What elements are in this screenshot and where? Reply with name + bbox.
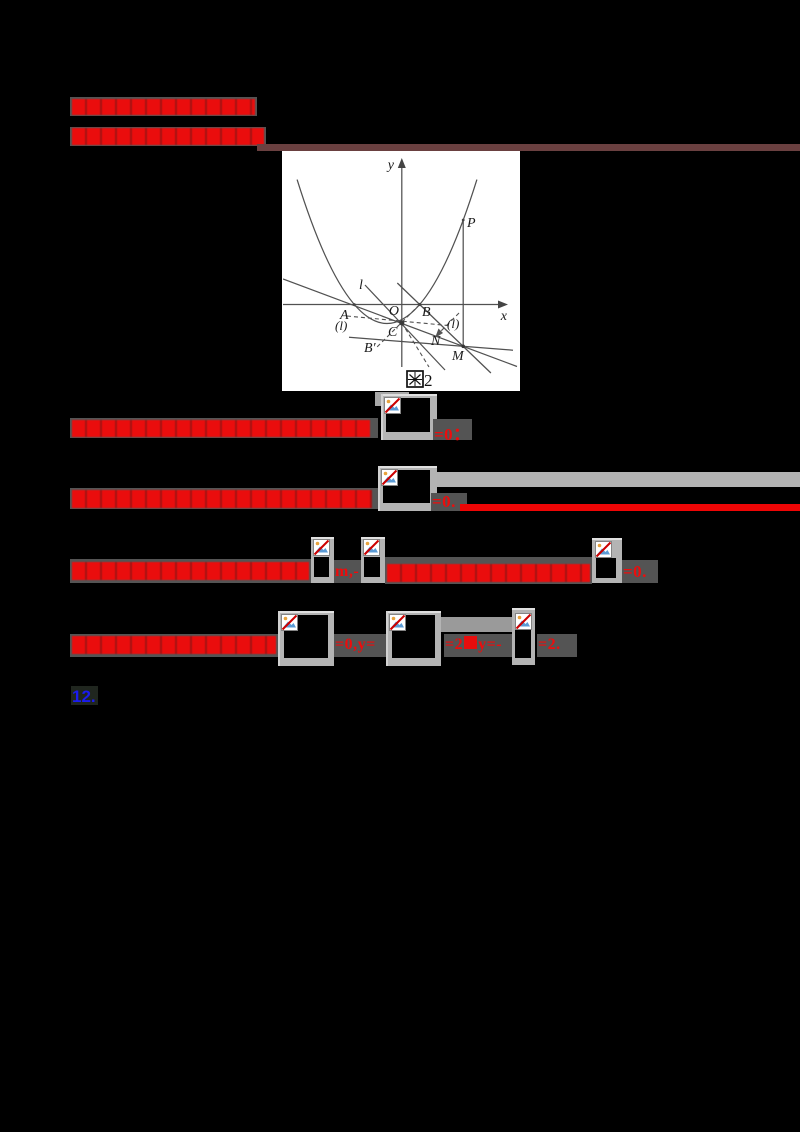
dashed A to (l) xyxy=(347,316,448,326)
line l (L2) xyxy=(365,285,445,370)
arrowheads xyxy=(398,158,406,168)
svg-text:N: N xyxy=(430,334,441,349)
tu2 caption xyxy=(407,371,433,390)
PH5-1 xyxy=(311,537,334,583)
vertical PM xyxy=(462,220,464,346)
svg-text:(l): (l) xyxy=(335,318,347,333)
dots xyxy=(399,320,404,325)
PH-L4 placeholder xyxy=(378,466,437,511)
line L3 through B,M xyxy=(397,283,491,373)
dashed arrow to N xyxy=(438,313,459,334)
svg-text:M: M xyxy=(451,349,465,364)
blue mark xyxy=(71,686,98,705)
svg-text:l: l xyxy=(359,278,363,293)
svg-text:(l): (l) xyxy=(447,316,459,331)
PH-L3 placeholder xyxy=(375,392,409,397)
dashed from C down-right xyxy=(402,323,429,367)
PH6-A xyxy=(278,611,334,666)
svg-text:y: y xyxy=(386,158,395,173)
line 4 xyxy=(432,472,800,487)
line L1 through A,C,M xyxy=(283,279,517,367)
line 6 xyxy=(440,617,512,632)
dashed B to B' xyxy=(376,305,420,349)
PH6-B xyxy=(386,611,441,666)
PH5-3 xyxy=(592,538,622,583)
parabola xyxy=(297,180,477,324)
maroon rule xyxy=(257,144,800,151)
line 5 xyxy=(70,559,311,583)
PH5-2 xyxy=(361,537,385,583)
figure xyxy=(282,151,520,391)
svg-text:2: 2 xyxy=(424,371,433,390)
svg-text:P: P xyxy=(466,216,476,231)
red line 2 xyxy=(70,127,266,146)
svg-text:C: C xyxy=(388,325,398,340)
svg-text:B: B xyxy=(422,305,431,320)
red line 1 xyxy=(70,97,257,116)
x-axis xyxy=(283,304,505,306)
line B'M xyxy=(349,337,513,350)
line 3 xyxy=(70,418,378,438)
svg-text:x: x xyxy=(500,309,508,324)
svg-text:O: O xyxy=(389,304,399,319)
y-axis xyxy=(401,166,403,367)
PH6-C xyxy=(512,608,535,665)
svg-text:B′: B′ xyxy=(364,341,377,356)
